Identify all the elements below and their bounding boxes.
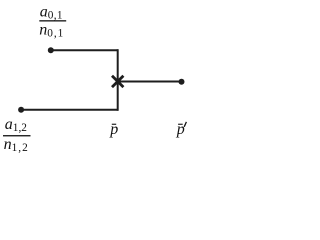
prime mark — [184, 122, 186, 127]
svg-text:p: p — [109, 121, 118, 138]
svg-text:a1,2: a1,2 — [5, 116, 27, 134]
wire: middle horizontal from X to right dot — [118, 81, 182, 83]
node dot (right end) — [179, 79, 185, 85]
fraction bar (top fraction) — [39, 20, 66, 21]
macron over p-prime — [178, 124, 183, 125]
wire: bottom horizontal from corner to dot — [21, 109, 118, 111]
macron over p — [112, 124, 116, 125]
wire: top horizontal from dot to corner — [51, 49, 118, 51]
svg-text:a0,1: a0,1 — [40, 4, 63, 22]
node dot (top left, below fraction a01/n01) — [48, 47, 54, 53]
svg-text:n0,1: n0,1 — [39, 22, 64, 40]
crossed vertex X on vertical wire — [112, 76, 123, 87]
svg-text:p: p — [176, 121, 185, 138]
svg-text:n1,2: n1,2 — [4, 136, 29, 154]
fraction bar (bottom fraction) — [3, 135, 31, 136]
node dot (bottom left, above fraction a12/n12) — [18, 107, 24, 113]
wire: vertical segment — [117, 49, 119, 111]
